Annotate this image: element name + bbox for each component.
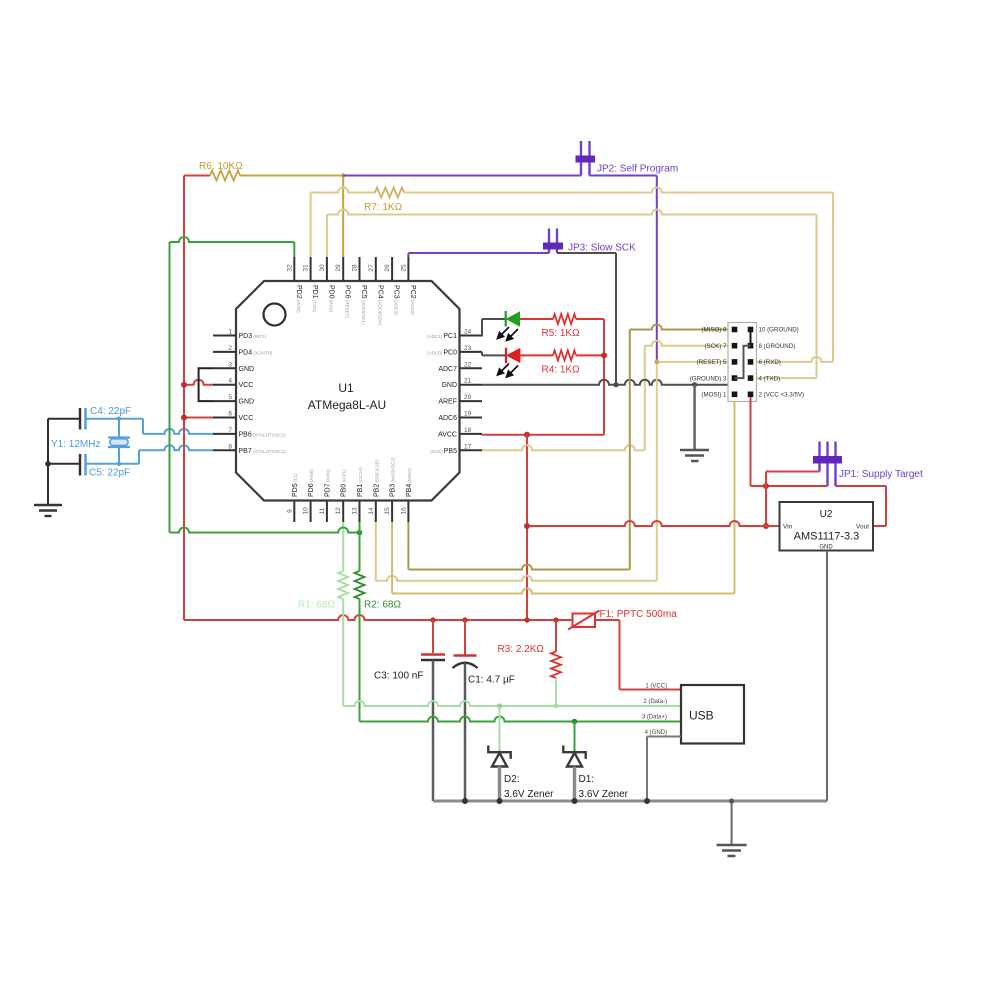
svg-text:PB7 (XTAL2/TOSC2): PB7 (XTAL2/TOSC2)	[239, 448, 287, 455]
svg-text:VCC: VCC	[239, 415, 254, 422]
labels D2	[504, 774, 554, 800]
svg-text:PB1 (OC1A): PB1 (OC1A)	[357, 467, 364, 497]
svg-text:30: 30	[319, 264, 326, 272]
svg-text:3 (Data+): 3 (Data+)	[642, 715, 667, 721]
svg-text:(ADC0) PC0: (ADC0) PC0	[427, 349, 457, 356]
junction rail gnd-stub	[729, 798, 734, 803]
junction rail D2-gnd	[497, 798, 503, 804]
wire TXD from PD1 (pale yellow)	[311, 188, 375, 258]
svg-text:AREF: AREF	[438, 399, 457, 406]
junction AVCC tee	[524, 432, 530, 438]
svg-text:JP3: Slow SCK: JP3: Slow SCK	[568, 243, 636, 254]
svg-text:9: 9	[286, 509, 293, 513]
svg-text:7: 7	[228, 427, 232, 434]
svg-text:USB: USB	[689, 709, 714, 723]
label R6	[199, 161, 243, 172]
labels ISP header pins	[690, 327, 804, 399]
svg-text:PB2 (SS/OC1B): PB2 (SS/OC1B)	[373, 460, 380, 497]
svg-text:U1: U1	[338, 381, 354, 395]
svg-text:PB6 (XTAL1/TOSC1): PB6 (XTAL1/TOSC1)	[239, 431, 287, 438]
svg-text:PD4 (XCK/T0): PD4 (XCK/T0)	[239, 349, 273, 356]
label R7	[364, 202, 403, 213]
svg-text:ADC6: ADC6	[438, 415, 457, 422]
wire USB GND (gray)	[647, 737, 681, 802]
svg-text:R4: 1KΩ: R4: 1KΩ	[542, 365, 581, 376]
junction VCC pin4	[181, 382, 187, 388]
junction rail C3	[430, 617, 435, 622]
connector USB body	[681, 685, 744, 744]
svg-text:32: 32	[286, 264, 293, 272]
svg-text:3.6V Zener: 3.6V Zener	[579, 789, 629, 800]
svg-text:D1:: D1:	[579, 774, 595, 785]
jumper JP3 Slow SCK	[543, 229, 563, 254]
wire XTAL2 net (blue) C5 to pin8	[86, 445, 214, 464]
wire D+ net to PD2 (green)	[170, 237, 295, 533]
svg-text:F1: PPTC 500ma: F1: PPTC 500ma	[600, 609, 678, 620]
wire AVCC pin18 run (red)	[482, 434, 604, 436]
junction VCC-JP1 mid	[763, 483, 769, 489]
junction XTAL2 at crystal bottom	[117, 462, 121, 466]
LED1 emission arrows	[498, 327, 519, 341]
svg-text:6: 6	[228, 411, 232, 418]
svg-text:PD2 (INT0): PD2 (INT0)	[295, 285, 302, 313]
svg-text:28: 28	[352, 264, 359, 272]
svg-text:15: 15	[384, 507, 391, 515]
junction Vin tee	[763, 523, 769, 529]
connector ISP 10-pin header	[728, 323, 757, 402]
svg-text:R5: 1KΩ: R5: 1KΩ	[542, 328, 581, 339]
svg-text:8 (GROUND): 8 (GROUND)	[759, 343, 796, 350]
svg-text:3: 3	[228, 361, 232, 368]
junction rail USB-gnd	[644, 798, 650, 804]
svg-text:31: 31	[303, 264, 310, 272]
label R5	[542, 328, 581, 339]
svg-text:26: 26	[384, 264, 391, 272]
svg-text:R1: 68Ω: R1: 68Ω	[298, 600, 335, 611]
svg-text:R7: 1KΩ: R7: 1KΩ	[364, 202, 403, 213]
wire header pin10-pin8 ground link (black)	[750, 330, 752, 346]
svg-text:13: 13	[352, 507, 359, 515]
junction VCC pin6	[181, 415, 187, 421]
svg-text:GND: GND	[819, 545, 833, 551]
resistor R2 68R (green)	[355, 522, 365, 722]
wire PC1 to LED1 (dark gray)	[482, 319, 506, 337]
junction rail C1	[462, 617, 467, 622]
svg-text:5: 5	[228, 394, 232, 401]
label C5	[89, 468, 130, 479]
svg-text:R6: 10KΩ: R6: 10KΩ	[199, 161, 243, 172]
svg-text:PB0 (ICP1): PB0 (ICP1)	[341, 469, 348, 497]
svg-text:11: 11	[319, 507, 326, 514]
junction JP3-GND	[613, 382, 618, 387]
wire VCC to pin 4	[184, 380, 213, 385]
svg-text:PD7 (AIN1): PD7 (AIN1)	[324, 469, 331, 497]
wire MOSI net header pin1 to PB3 (yellow)	[392, 397, 734, 594]
svg-text:(MOSI) 1: (MOSI) 1	[701, 392, 727, 399]
svg-text:16: 16	[400, 507, 407, 515]
svg-text:10 (GROUND): 10 (GROUND)	[759, 327, 799, 334]
svg-text:U2: U2	[820, 509, 833, 520]
svg-text:24: 24	[464, 329, 472, 336]
label Y1	[51, 439, 100, 450]
svg-text:29: 29	[335, 264, 342, 272]
wire RXD from PD0 to header pin4 (pale yellow)	[327, 210, 817, 379]
junction RESET tee	[654, 360, 659, 365]
svg-text:AVCC: AVCC	[438, 431, 457, 438]
fuse F1 PPTC 500ma	[568, 611, 600, 630]
capacitor C3 100nF	[421, 620, 445, 801]
resistor R3 2.2K (D- pullup)	[551, 620, 561, 706]
svg-text:4 (GND): 4 (GND)	[645, 730, 667, 736]
U1 reference label	[308, 381, 386, 412]
labels USB pins	[642, 684, 667, 737]
wire PC2 to JP3 (purple)	[408, 253, 549, 257]
wire VCC to pin 6	[184, 417, 213, 419]
wire TXD to header pin6 (pale yellow)	[404, 188, 833, 362]
resistor R1 68R (light green)	[338, 522, 348, 706]
svg-text:ATMega8L-AU: ATMega8L-AU	[308, 398, 386, 412]
label JP1	[839, 469, 923, 480]
junction D- D2	[497, 703, 502, 708]
svg-text:PD5 (T1): PD5 (T1)	[292, 473, 299, 497]
junction D+ PB1	[357, 530, 363, 536]
junction rail D1-gnd	[572, 798, 578, 804]
junction XTAL1 at crystal top	[117, 417, 121, 421]
wire D+ junction green	[170, 528, 360, 533]
ground symbol GND2 (below ISP header)	[680, 450, 709, 461]
junction rail R3	[553, 617, 558, 622]
wire header pin8-pin3 ground link (gray)	[735, 346, 751, 378]
op-amp U1 body ATMega8L-AU (octagonal TQFP outline)	[236, 281, 460, 501]
svg-text:ADC7: ADC7	[438, 366, 457, 373]
LED D-red (status) symbol	[506, 348, 520, 363]
resistor R5 1K	[520, 314, 604, 324]
ground symbol GND1 (left of crystal)	[34, 505, 62, 516]
svg-text:PC2 (ADC2): PC2 (ADC2)	[409, 285, 416, 315]
wire USB D+ line (green)	[360, 717, 682, 722]
svg-text:14: 14	[368, 507, 375, 515]
wire Vin line (red)	[527, 521, 780, 526]
wire JP1 right prong to Vout (red)	[836, 486, 887, 526]
wire JP3 to ground (dark gray)	[557, 253, 616, 385]
wire PC0 to LED2 (dark gray)	[482, 352, 506, 356]
diode D1 3.6V Zener	[563, 722, 585, 802]
svg-text:27: 27	[368, 264, 375, 272]
wire ground stub bottom	[731, 801, 733, 845]
wire GND bracket pins 3-5 (black)	[199, 368, 213, 401]
wire LED net vertical (red x=604)	[603, 319, 605, 435]
wire SCK from PB5 pin17 (pale yellow)	[482, 341, 751, 451]
svg-text:(SCK) 7: (SCK) 7	[704, 343, 727, 350]
svg-text:PC3 (ADC3): PC3 (ADC3)	[393, 285, 400, 315]
svg-text:25: 25	[400, 264, 407, 272]
svg-text:8: 8	[228, 443, 232, 450]
U1 pin-1 indicator circle	[264, 304, 286, 326]
svg-text:Vin: Vin	[783, 524, 793, 531]
capacitor C4 22pF	[80, 408, 86, 430]
labels U2	[783, 509, 869, 551]
label C3	[374, 671, 423, 682]
crystal Y1 12MHz	[108, 419, 130, 464]
svg-text:GND: GND	[441, 382, 457, 389]
svg-text:C3: 100 nF: C3: 100 nF	[374, 671, 423, 682]
svg-text:PC4 (ADC4/SDA): PC4 (ADC4/SDA)	[376, 285, 383, 326]
svg-text:2 (VCC <3.3/5V): 2 (VCC <3.3/5V)	[759, 392, 805, 399]
svg-text:(GROUND) 3: (GROUND) 3	[690, 375, 727, 382]
U1 top pins 32-25 (PD2,PD1,PD0,PC6,PC5,PC4,PC3,PC2)	[286, 257, 416, 326]
svg-text:23: 23	[464, 345, 472, 352]
svg-text:4: 4	[228, 378, 232, 385]
diode D2 3.6V Zener	[488, 706, 510, 801]
resistor R6 10K (reset pullup)	[184, 171, 343, 181]
junction Vin left	[524, 523, 530, 529]
junction R4/LED net	[601, 352, 607, 358]
label R4	[542, 365, 581, 376]
label F1	[600, 609, 678, 620]
svg-text:PD0 (RXD): PD0 (RXD)	[327, 285, 334, 313]
svg-text:1 (VCC): 1 (VCC)	[645, 684, 667, 690]
wire U2 GND down (gray)	[826, 551, 828, 802]
svg-text:(RESET) 5: (RESET) 5	[697, 359, 727, 366]
svg-text:10: 10	[303, 507, 310, 515]
junction rail C1-gnd	[462, 798, 468, 804]
wire GND drop to symbol	[693, 385, 696, 450]
svg-text:PC5 (ADC5/SCL): PC5 (ADC5/SCL)	[360, 285, 367, 325]
wire VCC main vertical (red, x=184)	[183, 176, 185, 621]
svg-text:GND: GND	[239, 399, 255, 406]
wire JP1 left-prong link (red)	[766, 472, 820, 527]
svg-text:PB4 (MISO): PB4 (MISO)	[406, 468, 413, 497]
label R1	[298, 600, 335, 611]
ground symbol GND3 (bottom)	[717, 845, 747, 856]
svg-text:VCC: VCC	[239, 382, 254, 389]
wire RESET riser to pin 29 (olive)	[342, 176, 344, 258]
svg-text:19: 19	[464, 411, 472, 418]
jumper JP2 Self Program	[576, 141, 596, 176]
jumper JP1 Supply Target (3-pin)	[813, 442, 842, 487]
wire GND from pin21 (dark gray)	[482, 378, 734, 385]
svg-text:6 (RXD): 6 (RXD)	[759, 359, 781, 366]
svg-text:JP2: Self Program: JP2: Self Program	[597, 164, 678, 175]
svg-text:(ADC1) PC1: (ADC1) PC1	[427, 333, 457, 340]
junction crystal-ground net	[45, 461, 51, 467]
label R3	[498, 644, 545, 655]
svg-text:PB3 (MOSI/OC2): PB3 (MOSI/OC2)	[390, 457, 397, 497]
svg-text:2: 2	[228, 345, 232, 352]
svg-text:AMS1117-3.3: AMS1117-3.3	[794, 531, 860, 543]
wire VCC drop (red x=527)	[526, 435, 528, 620]
svg-text:JP1: Supply Target: JP1: Supply Target	[839, 469, 923, 480]
LED D-green (status) symbol	[506, 311, 520, 327]
svg-text:17: 17	[464, 443, 472, 450]
svg-text:20: 20	[464, 394, 472, 401]
regulator U2 AMS1117-3.3 body	[780, 502, 874, 551]
svg-text:12: 12	[335, 507, 342, 515]
capacitor C5 22pF	[80, 454, 86, 476]
svg-text:22: 22	[464, 361, 472, 368]
label JP3	[568, 243, 636, 254]
junction rail x527	[524, 617, 529, 622]
wire XTAL1 net (blue) C4 to pin7	[86, 419, 214, 434]
labels D1	[579, 774, 629, 800]
capacitor C1 4.7uF (polarized)	[453, 620, 478, 801]
wire JP2 right run (purple)	[590, 176, 657, 362]
svg-text:(SCK) PB5: (SCK) PB5	[430, 448, 457, 455]
svg-text:C4: 22pF: C4: 22pF	[90, 406, 131, 417]
wire JP2 left run (purple)	[343, 175, 581, 177]
wire rail to USB VCC (red)	[595, 620, 681, 690]
junction D+ D1	[572, 719, 578, 725]
svg-text:Y1: 12MHz: Y1: 12MHz	[51, 439, 100, 450]
svg-text:2 (Data-): 2 (Data-)	[643, 699, 667, 705]
svg-text:R2: 68Ω: R2: 68Ω	[364, 600, 401, 611]
wire RESET net header pin5 to PB2 (pale yellow)	[376, 362, 735, 581]
svg-text:21: 21	[464, 378, 472, 385]
svg-text:C5: 22pF: C5: 22pF	[89, 468, 130, 479]
svg-text:PD1 (TXD): PD1 (TXD)	[311, 285, 318, 312]
svg-text:18: 18	[464, 427, 472, 434]
U1 bottom pins 9-16 (PD5,PD6,PD7,PB0,PB1,PB2,PB3,PB4)	[286, 457, 413, 522]
LED2 emission arrows	[498, 364, 519, 378]
wire USB D- line (light green)	[343, 701, 681, 706]
svg-text:PC6 (RESET): PC6 (RESET)	[344, 285, 351, 318]
resistor R4 1K	[520, 350, 604, 360]
label R2	[364, 600, 401, 611]
svg-text:(MISO) 9: (MISO) 9	[701, 327, 727, 334]
svg-text:GND: GND	[239, 366, 255, 373]
label C1	[468, 675, 515, 686]
wire VCC header pin2 down (red)	[751, 397, 828, 486]
wire bottom ground rail (gray)	[433, 800, 827, 803]
wire MISO net PB4 to header pin9 (dark olive)	[408, 325, 734, 570]
U1 right pins 24-17 (PC1,PC0,ADC7,GND,AREF,ADC6,AVCC,PB5)	[427, 329, 482, 455]
svg-text:R3: 2.2KΩ: R3: 2.2KΩ	[498, 644, 545, 655]
svg-text:1: 1	[228, 329, 232, 336]
junction GND drop	[692, 382, 697, 387]
svg-text:3.6V Zener: 3.6V Zener	[504, 789, 554, 800]
junction RESET/JP2 tee	[341, 173, 345, 177]
svg-text:PD6 (AIN0): PD6 (AIN0)	[308, 469, 315, 497]
junction D- R3	[554, 704, 559, 709]
svg-text:PD3 (INT1): PD3 (INT1)	[239, 333, 267, 340]
wire 5V rail (red y=620)	[184, 615, 573, 620]
svg-text:D2:: D2:	[504, 774, 520, 785]
wire crystal ground (black)	[48, 419, 80, 505]
svg-text:Vout: Vout	[856, 524, 869, 531]
label JP2	[597, 164, 678, 175]
svg-text:4 (TXD): 4 (TXD)	[759, 375, 781, 382]
U1 left pins 1-8 (PD3,PD4,GND,VCC,GND,VCC,PB6,PB7)	[213, 329, 286, 455]
resistor R7 1K	[375, 188, 404, 198]
svg-text:C1: 4.7 µF: C1: 4.7 µF	[468, 675, 515, 686]
label C4	[90, 406, 131, 417]
